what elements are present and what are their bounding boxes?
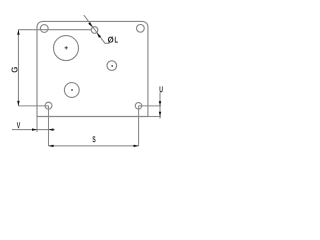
- plate outline: [37, 21, 148, 116]
- big bore circle: [54, 36, 79, 61]
- bottom-left centerline extension: [18, 105, 48, 107]
- corner hole top-left: [40, 25, 48, 33]
- dimension S right arrow: [134, 145, 139, 148]
- dimension G top arrow: [17, 30, 20, 35]
- bottom-right centerline extension right: [139, 105, 162, 107]
- dimension S line: [49, 145, 139, 147]
- left edge extension down: [36, 117, 38, 133]
- label G: [11, 67, 17, 72]
- leader upper arrow: [88, 22, 92, 27]
- label U: [160, 86, 163, 92]
- label V: [17, 122, 20, 128]
- dimension G bottom arrow: [17, 101, 20, 106]
- label S: [92, 136, 95, 142]
- label L: [115, 37, 118, 43]
- bottom edge extension right: [148, 116, 161, 118]
- dimension V right arrow: [49, 128, 54, 131]
- hole L with diameter callout: [91, 27, 98, 34]
- small circle center dot: [111, 65, 113, 67]
- bottom-left hole vertical extension: [48, 106, 50, 146]
- dimension U line: [159, 93, 161, 119]
- dimension G line: [17, 30, 19, 106]
- corner hole top-right: [137, 24, 145, 32]
- leader lower arrow: [97, 33, 101, 38]
- big bore center cross: [65, 46, 68, 49]
- dimension V left arrow: [32, 128, 37, 131]
- label diameter symbol: [108, 36, 114, 43]
- small circle: [107, 61, 117, 71]
- corner hole bottom-right: [135, 103, 142, 110]
- diameter leader line through hole L: [84, 15, 110, 43]
- corner hole bottom-left: [45, 102, 52, 109]
- dimension U lower arrow: [159, 112, 162, 117]
- middle circle center dot: [71, 89, 73, 91]
- top centerline through top-left hole to hole L: [18, 29, 91, 31]
- bottom-right hole vertical extension: [138, 106, 140, 146]
- dimension V line: [12, 129, 55, 131]
- dimension S left arrow: [49, 145, 54, 148]
- middle circle: [64, 83, 79, 98]
- dimension U upper arrow: [159, 101, 162, 106]
